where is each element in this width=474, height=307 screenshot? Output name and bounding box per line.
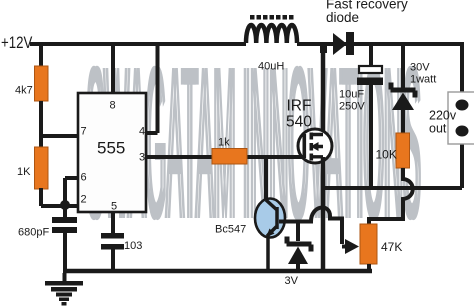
transistor Q1 IRF540 mosfet xyxy=(298,129,332,163)
wire: branch rail to 10uF xyxy=(369,44,373,66)
svg-text:30V: 30V xyxy=(410,62,430,74)
svg-text:2: 2 xyxy=(81,194,87,206)
svg-text:3: 3 xyxy=(139,152,145,164)
svg-text:1K: 1K xyxy=(17,166,31,178)
diode zener 3V xyxy=(296,221,300,241)
wire: 680pF to ground rail xyxy=(63,233,67,271)
svg-text:10K: 10K xyxy=(376,148,397,162)
svg-text:out: out xyxy=(429,122,447,136)
wire: mosfet source to ground rail xyxy=(321,157,326,271)
capacitor 103 xyxy=(101,233,124,239)
resistor 1k xyxy=(212,149,247,165)
svg-text:8: 8 xyxy=(110,100,116,112)
wire: +12V top rail xyxy=(30,42,462,46)
IC 555 xyxy=(78,93,146,212)
diode zener 30V xyxy=(389,83,418,98)
svg-text:680pF: 680pF xyxy=(18,227,49,239)
capacitor 10uF electrolytic xyxy=(359,66,382,73)
transistor Q2 Bc547 xyxy=(255,199,285,238)
wire: pin 6 tie to pin 2 xyxy=(65,178,78,206)
svg-text:4k7: 4k7 xyxy=(15,85,33,97)
wire: 10K down with hump over ground return, to 47K top xyxy=(369,168,413,225)
inductor 40uH xyxy=(246,25,297,43)
svg-text:40uH: 40uH xyxy=(258,61,284,73)
wire: right rail down to output box xyxy=(460,42,464,92)
svg-text:1watt: 1watt xyxy=(410,74,436,86)
wire: pin 7 xyxy=(41,134,78,138)
wire: 1K bottom to pin 2 xyxy=(41,188,78,206)
svg-text:555: 555 xyxy=(97,139,125,158)
wire: wiper arrow into 47K xyxy=(342,245,347,249)
wire: 4k7 to 1K xyxy=(39,101,43,147)
wire: zener to 10K xyxy=(401,108,405,133)
wire: left branch from rail to 4k7 xyxy=(39,44,43,66)
svg-text:Bc547: Bc547 xyxy=(215,224,246,236)
svg-text:10uF: 10uF xyxy=(339,89,364,101)
node: junction pins 2-6-680pF xyxy=(60,200,70,210)
wire: output box bottom to ground return xyxy=(323,144,462,188)
svg-text:5: 5 xyxy=(111,201,117,213)
capacitor 680pF xyxy=(52,217,77,223)
resistor 4k7 xyxy=(35,66,49,101)
wire: drain branch from rail xyxy=(321,44,326,134)
wire: Bc547 base line with hump over source wire xyxy=(279,208,342,244)
wire: bottom ground rail xyxy=(63,269,372,274)
wire: junction down to 680pF xyxy=(63,205,67,217)
svg-text:3V: 3V xyxy=(285,275,299,287)
watermark "swagatam innovations" xyxy=(85,20,422,264)
svg-text:+12V: +12V xyxy=(1,34,33,53)
wire: branch rail to 30V zener xyxy=(401,44,405,88)
svg-text:1k: 1k xyxy=(218,137,230,149)
wire: 10uF to ground return xyxy=(369,85,373,188)
wire: pin 3 to gate xyxy=(146,155,304,159)
svg-text:103: 103 xyxy=(124,240,142,252)
resistor 47K preset xyxy=(360,224,377,264)
wire: 47K bottom stub to ground rail xyxy=(367,264,371,271)
node: junction gate line to Bc547 collector xyxy=(264,157,268,200)
output terminal box 220v xyxy=(448,92,474,144)
svg-text:4: 4 xyxy=(139,126,145,138)
svg-text:diode: diode xyxy=(326,10,359,25)
resistor 1K xyxy=(35,147,49,189)
wire: pin 8 to rail xyxy=(111,44,115,93)
ground xyxy=(45,273,83,306)
svg-text:220v: 220v xyxy=(429,109,457,123)
resistor 10K xyxy=(396,133,410,168)
svg-text:540: 540 xyxy=(286,114,312,131)
wire: 103 to ground rail xyxy=(111,249,115,271)
svg-text:7: 7 xyxy=(81,126,87,138)
wire: pin 4 riser to rail xyxy=(146,44,158,133)
svg-text:6: 6 xyxy=(81,172,87,184)
wire: pin 5 to 103 cap xyxy=(111,212,115,233)
diode fast recovery xyxy=(333,33,347,55)
svg-text:IRF: IRF xyxy=(287,98,312,115)
node: junction rail-drain xyxy=(320,42,327,53)
svg-text:47K: 47K xyxy=(381,240,402,254)
svg-text:250V: 250V xyxy=(339,101,365,113)
